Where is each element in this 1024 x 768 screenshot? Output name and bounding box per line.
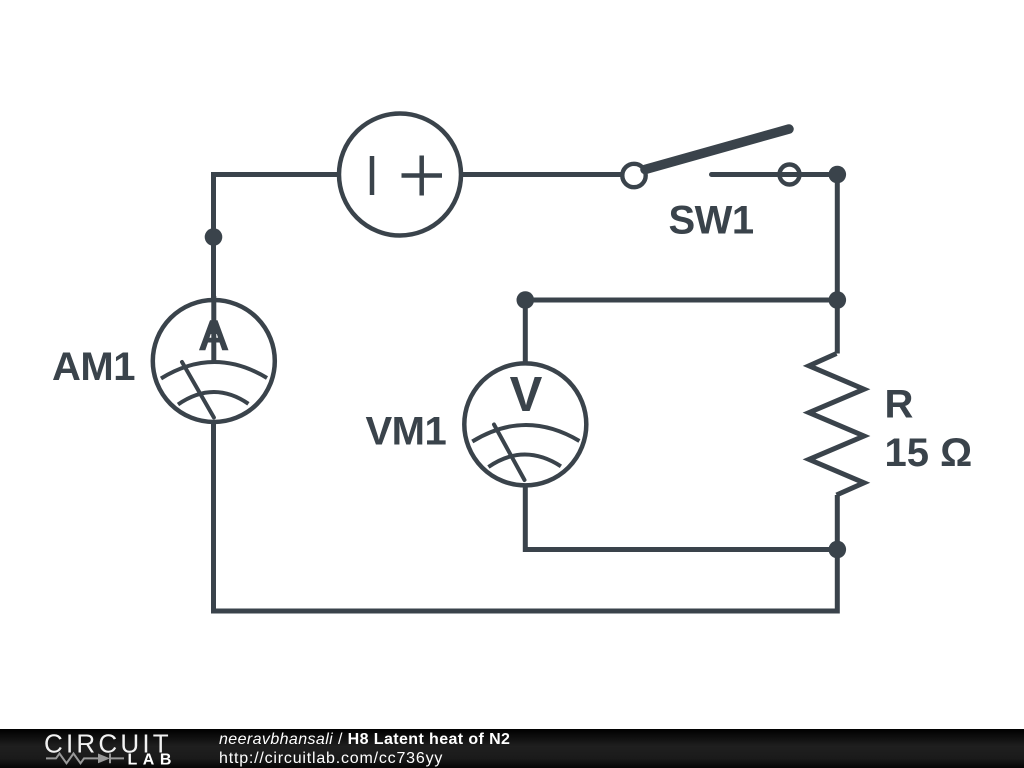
voltmeter VM1 circle [464,363,586,485]
ammeter AM1 arrow shaft [211,296,216,362]
wire right rail upper (node to resistor top) [835,175,840,354]
ammeter AM1 circle [153,300,275,422]
ammeter AM1 meter upper arc [161,362,267,378]
svg-text:AM1: AM1 [52,345,135,389]
wire VM1 bottom lead and rail to right [525,484,837,550]
wire VM1 top lead [523,300,528,366]
ammeter AM1 arrow head [206,315,222,334]
voltmeter VM1 meter lower arc [488,455,561,467]
svg-text:neeravbhansali / H8 Latent hea: neeravbhansali / H8 Latent heat of N2 [219,731,510,748]
wire from voltage source to switch [458,172,626,177]
wire switch output segment [712,172,838,177]
resistor R zigzag [809,354,864,496]
voltage source minus bar [370,156,375,195]
svg-text:LAB: LAB [128,751,177,768]
svg-text:15 Ω: 15 Ω [885,431,973,475]
logo squiggle resistor-diode [46,754,124,764]
node dot switch output [829,166,847,184]
voltage source plus sign [402,156,443,196]
ammeter AM1 meter lower arc [178,392,248,404]
svg-text:R: R [885,383,914,427]
svg-text:V: V [510,368,543,422]
voltage source V1 circle [339,114,461,236]
svg-text:http://circuitlab.com/cc736yy: http://circuitlab.com/cc736yy [219,750,443,767]
ammeter AM1 needle [182,362,214,418]
switch SW1 right terminal ring [780,165,800,185]
voltmeter VM1 meter upper arc [472,425,579,441]
switch SW1 left terminal circle [622,164,645,187]
svg-text:SW1: SW1 [669,199,754,243]
wire middle rail: VM1 top to right rail [525,298,837,303]
wire top-left: top rail and left rail down to ammeter [214,175,346,301]
node dot resistor top [829,291,847,309]
footer bar [0,729,1024,768]
wire right rail lower and bottom rail and left rail up to ammeter [214,422,838,611]
node dot VM1 top [517,291,535,309]
node dot left rail [205,228,223,246]
node dot resistor bottom [829,541,847,559]
voltmeter VM1 needle [494,425,525,481]
switch SW1 lever [645,129,789,170]
svg-text:VM1: VM1 [366,410,447,454]
